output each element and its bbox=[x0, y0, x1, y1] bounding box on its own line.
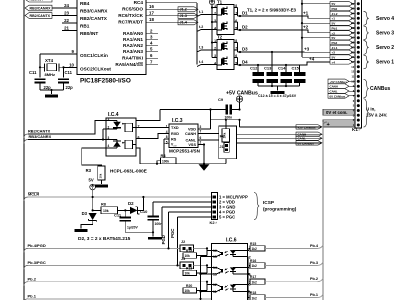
svg-text:CANH: CANH bbox=[185, 132, 196, 136]
svg-text:PIC18F2580-I/SO: PIC18F2580-I/SO bbox=[80, 78, 131, 85]
svg-text:17: 17 bbox=[149, 11, 154, 16]
svg-text:Servo 2: Servo 2 bbox=[376, 45, 394, 51]
svg-text:CANL: CANL bbox=[185, 139, 196, 143]
K2 pin labels bbox=[219, 195, 248, 220]
capacitor C11 left 22p bbox=[29, 70, 51, 90]
K1 feed tag J1.2 pin 24 bbox=[330, 11, 355, 16]
C10 K2 ground bar bbox=[148, 237, 162, 240]
resistor R19 10k bbox=[183, 267, 207, 276]
svg-text:TXD: TXD bbox=[171, 126, 179, 130]
svg-text:T1: T1 bbox=[217, 0, 223, 5]
svg-text:T2: T2 bbox=[217, 35, 223, 40]
IC3 right labels bbox=[185, 128, 197, 148]
net tag MCLR bbox=[24, 192, 39, 201]
wire J2 to IC6 bbox=[194, 247, 212, 255]
right bus +V bbox=[323, 122, 327, 300]
pin 10 wire OSC2 bbox=[64, 62, 78, 67]
K1 feed tag +4 pin 14 bbox=[330, 60, 355, 65]
IC6 LED 1 bbox=[232, 251, 234, 257]
svg-text:+5V CANbus: +5V CANbus bbox=[298, 125, 316, 129]
transistor T2 box bbox=[217, 35, 234, 70]
svg-text:1k2: 1k2 bbox=[252, 247, 258, 251]
net tag Pb.3/PGC bbox=[24, 260, 46, 269]
wire D3 stub bbox=[238, 51, 241, 53]
brace ICSP bbox=[254, 193, 297, 220]
svg-text:C9: C9 bbox=[218, 97, 224, 102]
svg-text:D1: D1 bbox=[242, 11, 248, 16]
K1 feed tag +2 pin 20 bbox=[330, 31, 355, 36]
pin 22 wire bbox=[62, 18, 77, 23]
IC3 left labels bbox=[171, 126, 179, 147]
cap bottom rail bbox=[258, 85, 300, 91]
svg-text:C12: C12 bbox=[250, 66, 258, 71]
capacitor C12 right 22p bbox=[58, 70, 73, 90]
pin 21 wire bbox=[62, 25, 77, 30]
resistor R4 100k bbox=[161, 153, 177, 164]
svg-text:HCPL-063L-000E: HCPL-063L-000E bbox=[110, 169, 147, 174]
pin 7 stub RA5 bbox=[146, 60, 158, 65]
svg-text:+5V CANbus: +5V CANbus bbox=[330, 80, 348, 84]
wire Pb.2 bbox=[28, 281, 212, 291]
svg-text:0V et com.: 0V et com. bbox=[326, 110, 348, 115]
svg-text:3: 3 bbox=[214, 54, 216, 58]
resistor R17 1k2 bbox=[250, 275, 265, 284]
svg-text:J1.3: J1.3 bbox=[180, 14, 187, 18]
IC6 cathode bus bbox=[248, 257, 250, 300]
wire IC4 pin5 to gnd bbox=[136, 148, 204, 164]
IC4 pin4 stub bbox=[106, 147, 117, 149]
net tag CANH bbox=[296, 132, 322, 136]
R6 outer loop bbox=[219, 126, 237, 159]
svg-text:Pb.1: Pb.1 bbox=[310, 293, 318, 297]
IC3 left stubs bbox=[164, 128, 169, 144]
IC6 channel pins 12/11 bbox=[213, 283, 251, 295]
K1 feed tag 5V pin 22 bbox=[330, 21, 355, 26]
svg-text:2: 2 bbox=[214, 46, 216, 50]
svg-text:Pb.4: Pb.4 bbox=[310, 244, 319, 248]
svg-text:+1: +1 bbox=[332, 17, 336, 21]
svg-text:VDD: VDD bbox=[188, 128, 196, 132]
svg-text:CANL: CANL bbox=[298, 137, 306, 141]
wire D2 stub bbox=[238, 29, 241, 31]
svg-text:15V à 24V.: 15V à 24V. bbox=[366, 113, 387, 118]
svg-text:22p: 22p bbox=[44, 85, 52, 90]
svg-text:Servo 1: Servo 1 bbox=[376, 59, 394, 65]
5V feeder wires bbox=[302, 4, 330, 57]
svg-text:J3: J3 bbox=[181, 257, 185, 261]
wire D4 stub bbox=[238, 64, 241, 66]
svg-text:RXD: RXD bbox=[171, 132, 179, 136]
IC3 pin numbers bbox=[166, 124, 202, 144]
IC4 pin1 stub bbox=[106, 120, 117, 122]
svg-text:R8: R8 bbox=[101, 202, 106, 206]
jumper J2 bbox=[180, 240, 194, 251]
capacitor C15 47u bbox=[292, 65, 306, 86]
svg-text:J2: J2 bbox=[181, 240, 185, 244]
svg-text:C14: C14 bbox=[278, 66, 286, 71]
svg-text:R4: R4 bbox=[161, 153, 167, 158]
pin 6 stub RA4 bbox=[146, 53, 158, 58]
K1 feed tag 5V pin 26 bbox=[330, 2, 355, 7]
svg-text:10k: 10k bbox=[185, 254, 191, 258]
ground bar caps bbox=[271, 91, 285, 94]
svg-text:RC6/TX/CK: RC6/TX/CK bbox=[118, 13, 143, 18]
svg-text:RA2/AN2: RA2/AN2 bbox=[123, 43, 143, 48]
svg-text:I.C.6: I.C.6 bbox=[226, 238, 237, 244]
svg-text:16: 16 bbox=[149, 4, 154, 9]
svg-text:RC5/SDO: RC5/SDO bbox=[122, 7, 143, 12]
net tag Pb.1 bbox=[24, 293, 37, 300]
svg-text:J1.4: J1.4 bbox=[180, 21, 188, 25]
capacitor C9 100n bbox=[218, 97, 232, 119]
svg-text:(programming): (programming) bbox=[263, 207, 297, 212]
+V vertical to sources bbox=[211, 5, 213, 58]
transistor T1 box bbox=[217, 0, 234, 35]
microcontroller IC2 PIC18F2580 box bbox=[77, 0, 146, 75]
K1 feed tag 5V pin 15 bbox=[330, 55, 355, 60]
svg-text:8MHz: 8MHz bbox=[45, 72, 55, 77]
svg-text:Pb.4/PGD: Pb.4/PGD bbox=[28, 243, 46, 248]
brace Servo 4 bbox=[364, 11, 395, 25]
svg-text:100k: 100k bbox=[223, 132, 227, 138]
K1 feed tag Pb0 pin 25 bbox=[330, 6, 355, 11]
IC3 right stubs bbox=[198, 129, 219, 145]
svg-text:R17: R17 bbox=[250, 275, 256, 279]
net tag Pb.2 bbox=[24, 276, 37, 285]
capacitor C12 47u bbox=[250, 65, 264, 86]
capacitor C14 47u bbox=[278, 65, 292, 86]
IC4 detector ch2 bbox=[125, 140, 136, 149]
wire Pb.4 bbox=[248, 244, 324, 251]
IC4 pin numbers bbox=[108, 117, 140, 148]
resistor R18 10k bbox=[183, 249, 207, 258]
net tag 0V CANbus bbox=[296, 141, 322, 145]
svg-text:D2: D2 bbox=[128, 201, 134, 206]
resistor R16 1k2 bbox=[250, 259, 265, 268]
IC4 LED ch2 bbox=[116, 140, 118, 149]
CAN transceiver IC3 box bbox=[169, 118, 198, 148]
IC6 channel pins 14/13 bbox=[213, 266, 251, 278]
wire Pb.1 bbox=[28, 298, 212, 300]
svg-text:t.1: t.1 bbox=[199, 10, 203, 14]
node D3 bbox=[239, 47, 248, 54]
svg-text:3: 3 bbox=[214, 19, 216, 23]
power 5V bbox=[89, 178, 96, 199]
svg-text:RC7/RX/DT: RC7/RX/DT bbox=[118, 20, 143, 25]
svg-text:R19: R19 bbox=[186, 267, 192, 271]
svg-text:RB0/INT: RB0/INT bbox=[30, 0, 45, 2]
brace U in bbox=[364, 99, 388, 127]
svg-text:C11: C11 bbox=[29, 70, 37, 75]
svg-text:2: 2 bbox=[200, 141, 202, 145]
svg-text:D3: D3 bbox=[82, 211, 88, 216]
K1 feed tag Pb1 pin 21 bbox=[330, 26, 355, 31]
IC6 LED wires 3 bbox=[233, 268, 248, 275]
svg-text:ref: ref bbox=[174, 146, 177, 148]
D3 ground bar bbox=[75, 229, 88, 232]
IC6 LED wires 1 bbox=[233, 251, 248, 257]
svg-text:RB4: RB4 bbox=[80, 1, 90, 6]
svg-text:RB1: RB1 bbox=[80, 24, 90, 29]
IC4 LED ch1 bbox=[116, 121, 118, 130]
svg-text:C11: C11 bbox=[65, 70, 73, 75]
brace Servo 3 bbox=[364, 26, 395, 40]
crystal XT4 bbox=[39, 54, 65, 78]
resistor R20 10k bbox=[183, 284, 207, 293]
svg-text:RB0/INT: RB0/INT bbox=[80, 31, 98, 36]
5V distribution line bbox=[301, 0, 303, 57]
svg-text:RB3/CANRX: RB3/CANRX bbox=[30, 6, 52, 10]
net tag RB3/CANRX bbox=[25, 5, 52, 11]
K1 CAN tag 0V CANbus bbox=[328, 94, 355, 99]
wire IC4 pin8 to +5V bbox=[136, 110, 160, 121]
J1 bottom to ground bbox=[225, 159, 227, 164]
svg-text:J1.1: J1.1 bbox=[332, 46, 338, 50]
svg-text:22: 22 bbox=[64, 18, 69, 23]
svg-text:RB2/CANTX: RB2/CANTX bbox=[80, 16, 108, 21]
IC6 phototransistor 12 bbox=[212, 284, 217, 286]
resistor R6 bbox=[220, 129, 230, 142]
svg-text:RA1/AN1: RA1/AN1 bbox=[123, 37, 143, 42]
R6 top stub bbox=[225, 120, 227, 129]
svg-text:100k: 100k bbox=[162, 160, 169, 164]
svg-text:VSS: VSS bbox=[188, 143, 196, 147]
svg-text:J1: J1 bbox=[219, 145, 223, 149]
svg-text:t.2: t.2 bbox=[199, 25, 203, 29]
wire 0V CANbus right bbox=[237, 142, 322, 144]
junction D3-D4 tie bbox=[271, 51, 273, 65]
K1 feed tag +1 pin 23 bbox=[330, 16, 355, 21]
svg-text:100n: 100n bbox=[155, 222, 163, 226]
svg-text:5V: 5V bbox=[89, 178, 94, 183]
wire Pb.4 bbox=[28, 247, 180, 249]
wire Pb.3 bbox=[248, 261, 324, 268]
svg-text:+2: +2 bbox=[303, 25, 309, 30]
K2 pin3 wire GND bbox=[162, 206, 212, 208]
svg-text:OSC2/CLKout: OSC2/CLKout bbox=[80, 66, 111, 71]
GND wire from K2 pin3 bbox=[161, 207, 163, 237]
svg-text:100n: 100n bbox=[225, 115, 233, 119]
K1 CAN tag CANL bbox=[328, 89, 355, 94]
svg-text:7: 7 bbox=[138, 125, 140, 129]
R6 top node line bbox=[211, 119, 241, 121]
net tag RB3/CANRX mid bbox=[24, 134, 52, 143]
svg-text:I.C.3: I.C.3 bbox=[172, 118, 183, 124]
net tag RB2/CANTX mid bbox=[24, 129, 51, 138]
wire J3 to IC6 bbox=[194, 264, 212, 273]
svg-text:+4: +4 bbox=[332, 60, 336, 64]
pin 4 stub RA2 bbox=[146, 41, 158, 46]
ground bar under crystal bbox=[45, 95, 58, 98]
connector K2 ICSP bbox=[212, 193, 218, 220]
svg-text:MCLR: MCLR bbox=[28, 192, 39, 197]
svg-text:18: 18 bbox=[149, 17, 154, 22]
IC6 emitter bus bbox=[199, 257, 211, 300]
jumper J1 bbox=[219, 143, 229, 153]
svg-text:2: 2 bbox=[214, 11, 216, 15]
svg-text:RS: RS bbox=[171, 137, 177, 141]
pin 23 wire bbox=[52, 10, 77, 15]
source stubs bbox=[212, 8, 217, 58]
svg-text:R18: R18 bbox=[250, 291, 256, 295]
resistor R15 1k2 bbox=[250, 242, 265, 251]
svg-text:D4: D4 bbox=[242, 60, 248, 65]
K2 pin4 wire PGD bbox=[161, 212, 211, 248]
capacitor C13 47u bbox=[264, 65, 278, 86]
optocoupler IC6 box bbox=[212, 238, 248, 300]
optocoupler IC4 box bbox=[106, 112, 136, 156]
svg-text:RA0/AN0: RA0/AN0 bbox=[123, 31, 143, 36]
svg-text:R3: R3 bbox=[86, 168, 92, 173]
svg-text:D2: D2 bbox=[242, 25, 248, 30]
IC4 pin4 wire to R3 bbox=[82, 148, 106, 166]
svg-text:R20: R20 bbox=[186, 284, 192, 288]
svg-text:1: 1 bbox=[214, 39, 216, 43]
svg-text:RA5/AN4/SS: RA5/AN4/SS bbox=[115, 62, 143, 67]
svg-text:7: 7 bbox=[200, 130, 202, 134]
pin 2 stub RA0 bbox=[146, 29, 158, 34]
T2 drain stubs bbox=[234, 43, 238, 66]
wire +2 bbox=[240, 25, 330, 33]
capacitor C10 100n bbox=[140, 202, 162, 237]
wire IC4 pin6 to RXD bbox=[136, 134, 169, 139]
net tag RB2/CANTX bbox=[25, 13, 52, 19]
left vertical bus bbox=[23, 0, 25, 300]
K1 feed tag Pb2 pin 18 bbox=[330, 40, 355, 45]
svg-text:Servo 4: Servo 4 bbox=[376, 16, 394, 22]
diode D3 bbox=[82, 211, 97, 222]
net tag t.1 bbox=[197, 10, 217, 17]
svg-text:0V CANbus: 0V CANbus bbox=[330, 94, 346, 98]
svg-text:+1: +1 bbox=[303, 11, 309, 16]
svg-text:C13: C13 bbox=[264, 66, 272, 71]
power symbol above T1 bbox=[209, 0, 214, 5]
wire +3 bbox=[240, 47, 330, 53]
svg-text:D3: D3 bbox=[242, 47, 248, 52]
ground triangle bbox=[199, 164, 210, 171]
svg-text:RA3/AN3: RA3/AN3 bbox=[123, 49, 143, 54]
svg-text:Servo 3: Servo 3 bbox=[376, 30, 394, 36]
jumper J3 bbox=[180, 257, 194, 268]
IC6 LED wires 5 bbox=[233, 285, 248, 292]
svg-text:J1.2: J1.2 bbox=[332, 12, 338, 16]
wire R8 to D2 bbox=[118, 209, 131, 211]
svg-text:4: 4 bbox=[108, 144, 110, 148]
svg-text:10k: 10k bbox=[185, 272, 191, 276]
svg-text:Pb.2: Pb.2 bbox=[28, 276, 37, 281]
IC6 channel pins 16/15 bbox=[213, 249, 251, 260]
svg-text:R15: R15 bbox=[250, 242, 256, 246]
IC4 pin2-3 tie bbox=[102, 129, 117, 141]
svg-text:C10: C10 bbox=[140, 209, 148, 214]
IC6 LED 3 bbox=[232, 268, 234, 275]
resistor R18 1k2 bbox=[250, 291, 265, 300]
svg-text:MCP2551-I/SN: MCP2551-I/SN bbox=[169, 148, 201, 153]
svg-text:+3: +3 bbox=[332, 51, 336, 55]
svg-text:Pb1: Pb1 bbox=[332, 26, 338, 30]
net tag J1.2 bbox=[178, 7, 198, 12]
wire +1 bbox=[240, 11, 330, 19]
crystal caps ground net bbox=[40, 83, 64, 94]
svg-text:t.4: t.4 bbox=[199, 60, 203, 64]
IC6 LED 5 bbox=[232, 285, 234, 292]
K1 feed tag J1.1 pin 17 bbox=[330, 45, 355, 50]
wire CANTX to IC4 pin1 bbox=[28, 121, 106, 135]
svg-text:RB3/CANRX: RB3/CANRX bbox=[29, 134, 52, 139]
wire D1 stub bbox=[238, 15, 241, 17]
pin 17 wire RC6 bbox=[146, 11, 197, 16]
svg-text:D2, 3 = 2 x BAT54S.215: D2, 3 = 2 x BAT54S.215 bbox=[78, 236, 131, 242]
svg-text:XT4: XT4 bbox=[45, 58, 54, 63]
svg-text:Pb0: Pb0 bbox=[332, 7, 338, 11]
svg-text:6: 6 bbox=[200, 136, 202, 140]
pin 24 wire bbox=[52, 3, 77, 8]
wire CANH right bbox=[237, 133, 322, 135]
svg-text:21: 21 bbox=[64, 25, 69, 30]
svg-text:K1♂: K1♂ bbox=[352, 127, 361, 132]
svg-text:10k: 10k bbox=[185, 289, 191, 293]
resistor R8 10k bbox=[93, 202, 118, 213]
cap top junctions bbox=[257, 64, 287, 66]
svg-text:+3: +3 bbox=[304, 47, 310, 52]
bundle vertical line bbox=[196, 3, 198, 65]
svg-text:1k2: 1k2 bbox=[252, 296, 258, 300]
svg-text:1µ/20V: 1µ/20V bbox=[127, 226, 139, 230]
svg-text:0V CANbus: 0V CANbus bbox=[298, 141, 315, 145]
D3 tail bbox=[81, 221, 93, 229]
svg-text:5 = PGC: 5 = PGC bbox=[219, 215, 235, 220]
R4 wiring bbox=[156, 139, 164, 165]
gray tag plus bbox=[323, 120, 355, 128]
net tag J1.4 bbox=[178, 20, 198, 25]
brace Servo 1 bbox=[364, 55, 395, 69]
svg-text:CANBus: CANBus bbox=[370, 86, 390, 92]
connector K1 bbox=[351, 0, 361, 128]
T1 drain stubs bbox=[234, 8, 238, 31]
svg-text:Pb.1: Pb.1 bbox=[28, 293, 37, 298]
K1 CAN tag +5V CANbus bbox=[328, 79, 355, 84]
net tag (cut) top bbox=[25, 0, 52, 2]
K1 CAN tag CANH bbox=[328, 84, 355, 89]
net tag CANL bbox=[296, 136, 322, 140]
svg-text:8: 8 bbox=[166, 135, 168, 139]
svg-text:PGC: PGC bbox=[170, 229, 175, 238]
wire D2 to MCLR line bbox=[138, 196, 145, 211]
net tag t.4 bbox=[197, 60, 217, 67]
wire Pb.1 bbox=[248, 293, 324, 298]
net tag +5V CANbus bbox=[296, 125, 322, 129]
svg-text:Pb2: Pb2 bbox=[332, 41, 338, 45]
svg-text:22p: 22p bbox=[66, 85, 74, 90]
power +5V CANBus bbox=[226, 91, 258, 110]
node D2 bbox=[239, 25, 248, 32]
svg-text:K2♂: K2♂ bbox=[210, 220, 218, 225]
svg-text:PGD: PGD bbox=[161, 235, 166, 244]
R3 ground bbox=[95, 180, 108, 188]
svg-text:ICSP: ICSP bbox=[263, 200, 274, 205]
svg-text:1k2: 1k2 bbox=[252, 264, 258, 268]
svg-text:I.C.4: I.C.4 bbox=[108, 112, 119, 118]
node D4 bbox=[239, 60, 248, 67]
svg-text:RB3/CANRX: RB3/CANRX bbox=[80, 9, 108, 14]
K1 feed tag 5V pin 19 bbox=[330, 36, 355, 41]
svg-text:10k: 10k bbox=[99, 173, 103, 178]
wire CANRX to IC4 pin3 bbox=[28, 139, 103, 141]
pin 15 wire RC4 bbox=[146, 2, 197, 4]
svg-text:RA4/T0KI: RA4/T0KI bbox=[122, 56, 143, 61]
pin 18 wire RC7 bbox=[146, 17, 197, 22]
pin 5 stub RA3 bbox=[146, 47, 158, 52]
